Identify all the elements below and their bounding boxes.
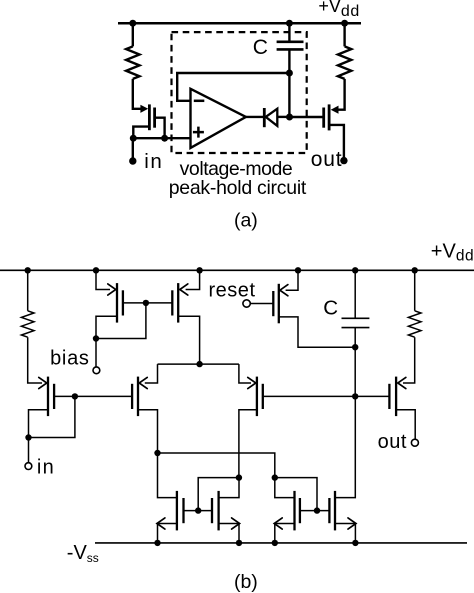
svg-text:reset: reset — [209, 280, 256, 302]
svg-text:out: out — [311, 148, 342, 171]
capacitor C (circuit b) — [342, 318, 370, 327]
feedback wire from hold node to op-amp - input — [177, 73, 289, 101]
svg-text:C: C — [323, 296, 338, 319]
arrow out of Q7 source — [157, 518, 165, 529]
wire Q7-Q8 gate node up to node C — [198, 478, 239, 511]
transistor Q9 channel bar — [293, 491, 295, 531]
transistor M2 gate bar — [322, 108, 325, 128]
wire Vdd to M3 drain — [96, 270, 110, 289]
wire hold node to M2 gate — [290, 116, 323, 118]
wire R4 to M7 drain — [403, 337, 415, 383]
transistor M7 channel bar — [395, 377, 397, 417]
svg-text:in: in — [37, 456, 54, 478]
transistor M4 gate bar — [171, 290, 173, 315]
wire M9 source down to node C — [239, 410, 257, 478]
arrow into M9 drain — [248, 377, 256, 388]
wire R2 to M2 drain — [338, 79, 345, 110]
svg-text:peak-hold circuit: peak-hold circuit — [169, 177, 307, 199]
wire M3 gate to M4 gate — [124, 302, 172, 304]
wire reset terminal to M5 gate — [250, 303, 272, 305]
transistor M5 channel bar — [278, 284, 280, 324]
wire Q9-Q10 gate node up to node B — [275, 478, 317, 511]
wire R3 to M6 drain — [28, 337, 42, 383]
wire bias node to mirror gate node — [96, 303, 146, 339]
wire Vdd to M4 drain — [186, 270, 200, 289]
junction dot in node — [25, 434, 31, 440]
transistor M1 gate bar — [153, 108, 156, 128]
transistor Q8 channel bar — [217, 491, 219, 531]
svg-text:out: out — [378, 431, 407, 453]
transistor M8 channel bar — [137, 377, 139, 417]
wire Q9 source to -Vss rail — [275, 524, 295, 543]
arrow into M6 drain — [39, 377, 47, 388]
wire M3 source to bias node — [96, 316, 117, 338]
arrow into M5 drain — [280, 285, 288, 296]
wire M8 source down to mirror node A — [138, 410, 158, 453]
bias terminal circle — [93, 367, 100, 374]
wire hold node down to gate line — [354, 347, 356, 396]
wire M1 gate to input node — [156, 118, 165, 139]
transistor M7 gate bar — [388, 384, 390, 409]
transistor M6 channel bar — [47, 377, 49, 417]
wire tail to M8 drain — [145, 364, 158, 383]
wire Vdd to M5 drain — [286, 270, 298, 290]
wire Q7 gate to Q8 gate — [184, 510, 213, 512]
arrow out of Q10 source — [348, 518, 356, 529]
wire M4 source to tail node — [178, 316, 199, 364]
junction dot node B — [272, 474, 278, 480]
arrow into M7 drain — [398, 377, 406, 388]
arrow into M2 drain — [331, 106, 339, 114]
junction dot feedback node — [286, 70, 293, 77]
wire Q8 drain to node C — [219, 478, 239, 498]
node dot on Vdd rail above R2 — [341, 20, 348, 27]
wire Q8 source to -Vss rail — [219, 524, 239, 543]
junction dot M6 gate node — [72, 393, 78, 399]
arrow into M1 drain — [140, 105, 148, 113]
resistor R4 — [408, 311, 421, 337]
wire M9 gate to output gate line — [264, 395, 390, 397]
op-amp minus sign — [194, 100, 205, 103]
wire op-amp output to diode — [246, 116, 264, 118]
transistor Q9 gate bar — [299, 498, 301, 523]
transistor M1 channel bar — [148, 104, 151, 130]
wire M1 source to input node — [133, 127, 150, 137]
svg-text:C: C — [253, 36, 268, 59]
power rail +Vdd (circuit a) — [118, 22, 361, 25]
node dot on -Vss rail at Q9 — [272, 540, 278, 546]
transistor Q7 gate bar — [182, 498, 184, 523]
svg-text:(a): (a) — [234, 209, 258, 231]
wire in node to M6 gate node — [29, 396, 75, 437]
transistor Q10 gate bar — [328, 498, 330, 523]
junction dot Q9-Q10 gate node — [314, 507, 320, 513]
out terminal dot — [340, 157, 347, 164]
node dot on Vdd rail above C — [286, 20, 293, 27]
junction dot gate line at C node — [352, 393, 358, 399]
wire Vdd to resistor R4 — [414, 270, 416, 311]
transistor M3 gate bar — [122, 290, 124, 315]
wire M5 source to hold node — [279, 317, 355, 347]
wire Vdd to resistor R3 — [27, 270, 29, 311]
wire diode to hold node — [277, 116, 289, 118]
junction dot Q7-Q8 gate node — [195, 507, 201, 513]
transistor Q10 channel bar — [334, 491, 336, 531]
arrow out of Q8 source — [232, 518, 240, 529]
node dot on Vdd rail at R3 — [25, 267, 31, 273]
wire M6 source to in node — [29, 410, 49, 438]
in terminal dot — [129, 157, 136, 164]
junction dot mirror node A — [154, 450, 160, 456]
reset terminal circle — [243, 300, 250, 307]
wire R1 to M1 drain — [133, 79, 141, 109]
diode D1 cathode bar — [263, 108, 266, 127]
resistor R3 — [21, 311, 34, 337]
junction dot input node right — [161, 135, 168, 142]
wire node B to Q9 drain — [275, 478, 294, 498]
svg-text:in: in — [144, 150, 162, 173]
transistor Q7 channel bar — [176, 491, 178, 531]
transistor M6 gate bar — [53, 384, 55, 409]
wire M2 source to out terminal — [329, 125, 344, 159]
node dot on -Vss rail at Q7 — [154, 540, 160, 546]
wire to in terminal — [132, 138, 134, 159]
transistor M2 channel bar — [328, 104, 331, 130]
node dot on Vdd rail at M4 — [196, 267, 202, 273]
wire input node to op-amp + input — [133, 137, 190, 139]
out terminal circle — [411, 439, 418, 446]
wire Vdd to capacitor C — [288, 23, 290, 41]
resistor R2 — [338, 46, 351, 79]
wire bias node to bias terminal — [95, 339, 97, 367]
junction dot bias node — [93, 335, 99, 341]
transistor M9 gate bar — [262, 384, 264, 409]
transistor Q8 gate bar — [211, 498, 213, 523]
transistor M8 gate bar — [131, 384, 133, 409]
transistor M4 channel bar — [177, 283, 179, 323]
wire M6 gate to diff pair gate M8 — [55, 395, 132, 397]
node dot on Vdd rail at M5 reset — [295, 267, 301, 273]
junction dot input node left — [130, 135, 137, 142]
junction dot node C — [236, 474, 242, 480]
node dot on Vdd rail at R4 — [412, 267, 418, 273]
wire capacitor C to hold node — [288, 49, 290, 117]
capacitor C (circuit a) — [277, 42, 304, 50]
resistor R1 — [126, 46, 139, 79]
arrow into M4 drain — [180, 284, 188, 295]
wire Vdd to capacitor C (b) — [354, 270, 356, 318]
wire M7 source to out terminal — [396, 410, 415, 440]
node dot on -Vss rail at Q8 — [236, 540, 242, 546]
transistor M3 channel bar — [116, 283, 118, 323]
svg-text:bias: bias — [50, 347, 89, 369]
op-amp U1 — [191, 89, 246, 148]
wire gate line node down to Q10 drain — [336, 396, 355, 497]
junction dot hold node (b) — [352, 344, 358, 350]
node dot on Vdd rail above R1 — [129, 20, 136, 27]
junction dot tail node — [196, 361, 202, 367]
wire Vdd to resistor R2 — [343, 23, 345, 46]
arrow out of Q9 source — [274, 518, 282, 529]
arrow into M3 drain — [108, 284, 116, 295]
wire Q9 gate to Q10 gate — [300, 510, 330, 512]
svg-text:(b): (b) — [234, 571, 258, 593]
wire node A to Q7 drain — [158, 453, 177, 498]
power rail +Vdd (circuit b) — [0, 269, 474, 271]
in terminal circle — [25, 463, 32, 470]
diode D1 triangle — [266, 109, 278, 126]
wire capacitor to hold node dot — [354, 328, 356, 348]
node dot on -Vss rail at Q10 — [352, 540, 358, 546]
transistor M5 gate bar — [272, 291, 274, 316]
wire Q7 source to -Vss rail — [158, 524, 177, 543]
junction dot mirror gate node — [143, 300, 149, 306]
wire tail to M9 drain — [239, 364, 251, 383]
node dot on Vdd rail at C — [352, 267, 358, 273]
wire tail node across diff pair — [158, 363, 239, 365]
wire mirror node A to node B — [158, 453, 275, 478]
transistor M9 channel bar — [256, 377, 258, 417]
junction dot hold node — [286, 114, 293, 121]
wire Vdd to resistor R1 — [132, 23, 134, 46]
wire Q10 source to -Vss rail — [335, 524, 355, 543]
wire in node to in terminal — [28, 438, 30, 463]
dashed box voltage-mode peak-hold circuit — [172, 32, 307, 153]
node dot on Vdd rail at M3 — [93, 267, 99, 273]
power rail -Vss — [95, 542, 467, 544]
arrow into M8 drain — [139, 377, 147, 388]
op-amp plus sign — [193, 127, 204, 138]
